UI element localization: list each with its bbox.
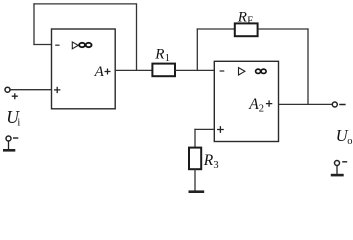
- U_o label: [336, 126, 353, 147]
- ground stub of output lower terminal: [336, 166, 338, 175]
- terminal output lower: [335, 161, 340, 166]
- op-amp A2 triangle symbol: [239, 68, 245, 75]
- label RF: [237, 9, 253, 26]
- plus mark at input terminal: [12, 93, 18, 99]
- wire R1 to A2 inverting input: [175, 69, 214, 71]
- svg-text:o: o: [347, 136, 352, 147]
- wire A2 non-inverting input left: [194, 128, 214, 130]
- svg-text:R: R: [237, 9, 247, 25]
- resistor R1: [152, 64, 175, 77]
- ground bar left: [3, 149, 15, 152]
- wire RF right: [258, 28, 309, 30]
- svg-text:F: F: [247, 16, 253, 27]
- op-amp A1 inverting mark: [55, 44, 59, 46]
- svg-text:A: A: [248, 96, 259, 113]
- terminal input plus: [5, 87, 10, 92]
- wire into A1 inverting input: [33, 44, 51, 46]
- op-amp A2 box: [214, 61, 278, 141]
- label R3: [203, 152, 219, 171]
- op-amp A1 output plus mark: [105, 69, 111, 75]
- wire feedback top of A1: [33, 3, 136, 5]
- wire feedback left vertical of A1: [33, 3, 35, 45]
- wire feedback right vertical down to A1 output node: [136, 3, 138, 70]
- op-amp A1 box: [52, 29, 116, 109]
- svg-text:A: A: [94, 64, 105, 80]
- ground stub of input lower terminal: [8, 141, 10, 149]
- wire RF left: [197, 28, 235, 30]
- resistor R3: [189, 148, 201, 170]
- resistor RF: [235, 23, 258, 36]
- svg-text:R: R: [203, 152, 214, 169]
- op-amp A2 infinity symbol: [256, 69, 267, 73]
- wire down to R3: [194, 129, 196, 148]
- ground bar right: [331, 174, 344, 177]
- terminal input minus: [6, 136, 11, 141]
- wire A2 output: [279, 103, 333, 105]
- terminal output: [332, 102, 337, 107]
- wire A1 output to R1: [115, 69, 152, 71]
- minus mark at output lower terminal: [342, 161, 347, 163]
- op-amp A1 non-inverting plus mark: [54, 87, 60, 93]
- svg-text:R: R: [154, 46, 164, 62]
- minus mark at output terminal: [339, 104, 345, 106]
- label R1: [154, 46, 170, 64]
- op-amp A2 label A2: [248, 96, 264, 115]
- minus mark at input lower terminal: [13, 137, 18, 139]
- op-amp A1 infinity symbol: [79, 43, 91, 47]
- wire tap up to RF: [196, 28, 198, 70]
- op-amp A2 inverting mark: [220, 70, 225, 72]
- op-amp A2 output plus mark: [266, 100, 272, 106]
- svg-text:2: 2: [259, 104, 264, 115]
- U_i label: [6, 107, 20, 129]
- ground bar under R3: [189, 190, 205, 193]
- svg-text:1: 1: [165, 53, 170, 64]
- wire R3 to ground: [194, 169, 196, 191]
- wire RF down to output node: [307, 28, 309, 104]
- wire input to A1 non-inverting input: [10, 89, 51, 91]
- op-amp A1 triangle symbol: [72, 42, 78, 49]
- svg-text:i: i: [17, 117, 20, 128]
- op-amp A2 non-inverting plus mark: [217, 126, 224, 133]
- svg-text:3: 3: [213, 160, 218, 171]
